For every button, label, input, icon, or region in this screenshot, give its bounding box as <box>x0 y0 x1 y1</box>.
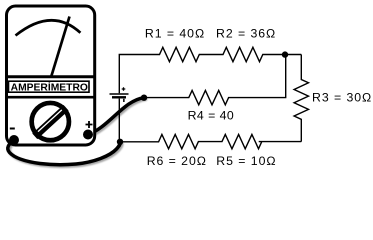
svg-text:R4 = 40: R4 = 40 <box>188 109 235 123</box>
svg-text:R1 = 40Ω: R1 = 40Ω <box>145 26 205 40</box>
svg-text:R2 = 36Ω: R2 = 36Ω <box>216 26 276 40</box>
svg-text:R5 = 10Ω: R5 = 10Ω <box>216 154 276 168</box>
svg-text:AMPERÍMETRO: AMPERÍMETRO <box>11 81 88 94</box>
svg-text:R6 = 20Ω: R6 = 20Ω <box>147 154 207 168</box>
svg-text:R3 = 30Ω: R3 = 30Ω <box>312 91 372 105</box>
